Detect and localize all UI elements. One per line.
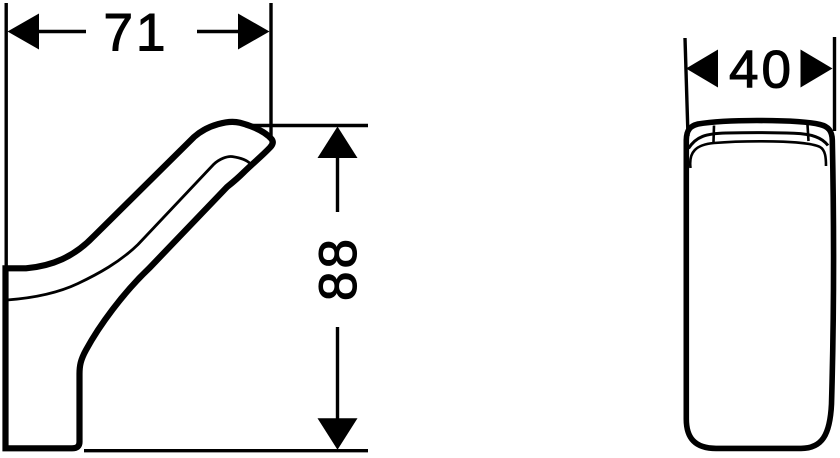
arrow 71 right (238, 14, 270, 50)
front view tick right (808, 125, 809, 142)
dim line 71 right segment (197, 30, 238, 33)
arrow 40 right (801, 50, 833, 88)
hook inner thin line (7, 156, 250, 300)
svg-text:40: 40 (729, 41, 794, 100)
svg-text:71: 71 (104, 4, 169, 63)
arrow 71 left (8, 14, 40, 50)
dim line 71 left segment (39, 30, 86, 33)
hook front view outer contour (686, 121, 833, 449)
extension line right (40) (833, 37, 836, 131)
front view cap thin line A (689, 133, 829, 149)
extension line left (71) (4, 3, 7, 266)
svg-text:88: 88 (309, 236, 368, 301)
front view tick left (712, 126, 715, 143)
hook outline (6, 122, 273, 448)
dim line 88 lower segment (336, 327, 339, 419)
extension line top (88) (252, 124, 368, 127)
front view body shoulder thin line B (690, 141, 826, 168)
arrow 88 down (318, 418, 358, 450)
extension line left (40) (685, 38, 688, 136)
arrow 88 up (318, 127, 358, 159)
baseline (88 bottom) (84, 449, 368, 452)
dim line 88 upper segment (336, 158, 339, 212)
arrow 40 left (686, 50, 718, 88)
extension line right (71) (269, 3, 272, 140)
